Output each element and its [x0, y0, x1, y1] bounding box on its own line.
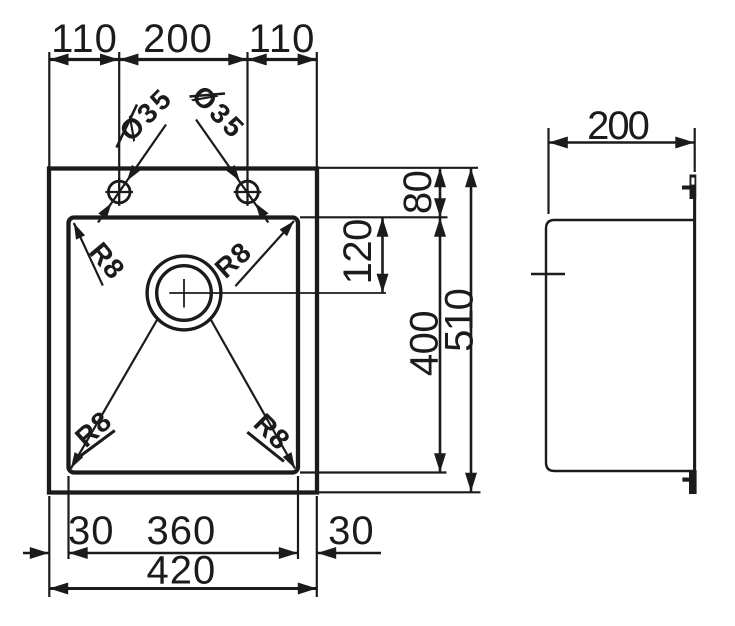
svg-text:110: 110 — [51, 17, 118, 61]
svg-text:200: 200 — [587, 104, 648, 148]
svg-text:200: 200 — [143, 17, 213, 61]
svg-text:510: 510 — [438, 289, 482, 351]
svg-text:30: 30 — [328, 509, 375, 553]
svg-text:30: 30 — [68, 509, 115, 553]
svg-text:420: 420 — [147, 549, 217, 593]
svg-text:120: 120 — [336, 219, 380, 284]
svg-text:360: 360 — [147, 509, 217, 553]
svg-text:80: 80 — [396, 171, 440, 215]
svg-text:110: 110 — [249, 17, 316, 61]
